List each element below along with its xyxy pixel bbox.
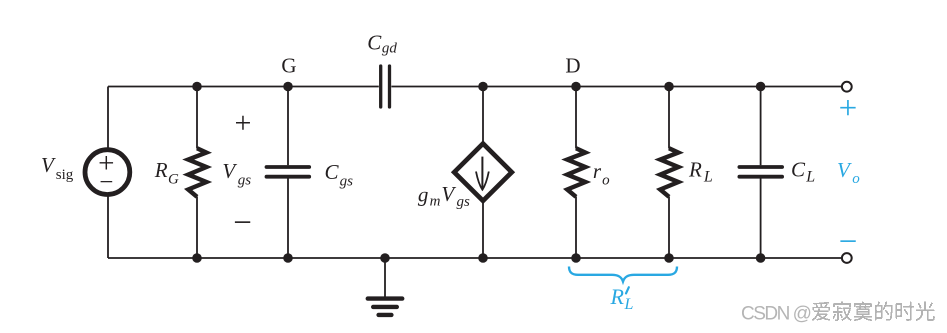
svg-text:G: G bbox=[281, 53, 296, 77]
svg-text:gs: gs bbox=[340, 174, 354, 190]
svg-text:R: R bbox=[610, 284, 625, 309]
svg-text:gd: gd bbox=[382, 41, 398, 57]
svg-text:D: D bbox=[565, 53, 580, 77]
svg-text:r: r bbox=[593, 159, 602, 183]
svg-text:L: L bbox=[805, 168, 815, 185]
svg-text:C: C bbox=[325, 160, 340, 184]
svg-text:g: g bbox=[418, 182, 429, 206]
svg-text:m: m bbox=[430, 194, 441, 210]
svg-text:o: o bbox=[602, 173, 610, 189]
svg-text:V: V bbox=[41, 153, 56, 177]
svg-text:G: G bbox=[168, 171, 179, 187]
svg-text:V: V bbox=[837, 158, 852, 182]
svg-text:−: − bbox=[839, 224, 858, 260]
svg-text:sig: sig bbox=[56, 167, 74, 183]
svg-text:+: + bbox=[235, 107, 252, 140]
svg-text:o: o bbox=[852, 171, 860, 187]
svg-text:R: R bbox=[154, 158, 168, 182]
svg-text:−: − bbox=[233, 205, 252, 241]
svg-text:L: L bbox=[703, 168, 713, 185]
svg-text:R: R bbox=[688, 158, 702, 182]
svg-text:−: − bbox=[99, 169, 113, 196]
svg-text:CSDN @: CSDN @ bbox=[741, 303, 811, 324]
svg-text:+: + bbox=[839, 91, 858, 127]
svg-text:V: V bbox=[441, 182, 456, 206]
svg-text:L: L bbox=[624, 296, 634, 313]
svg-text:V: V bbox=[222, 159, 237, 183]
svg-text:C: C bbox=[367, 30, 382, 54]
svg-text:gs: gs bbox=[457, 194, 471, 210]
svg-text:gs: gs bbox=[238, 172, 252, 188]
svg-text:C: C bbox=[791, 158, 806, 182]
